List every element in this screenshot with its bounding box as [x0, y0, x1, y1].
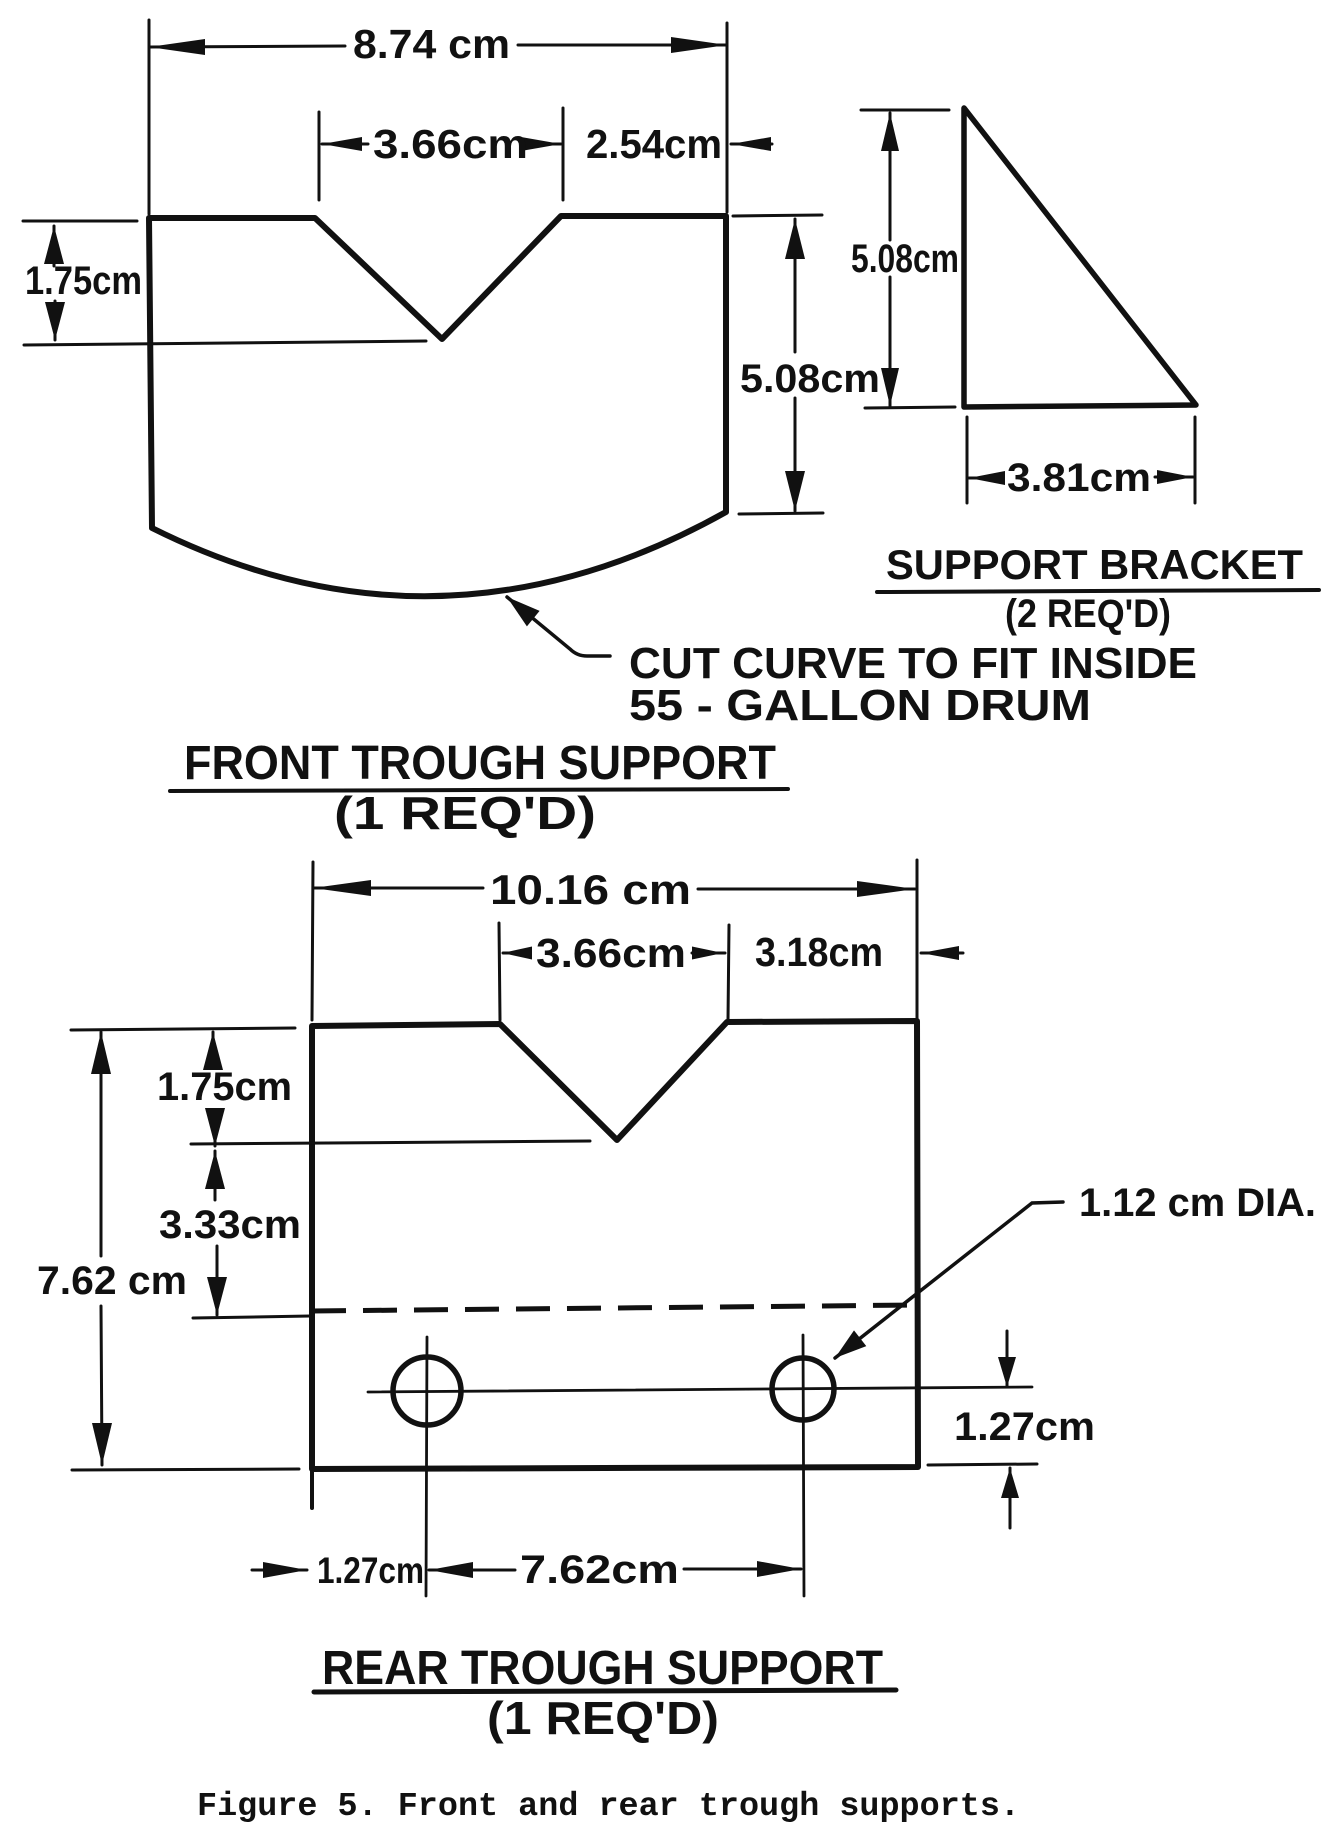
svg-text:5.08cm: 5.08cm [851, 237, 959, 281]
hole left [393, 1357, 461, 1425]
dimension 1.75cm arrows (rear) [212, 1032, 215, 1066]
dimension 10.16cm line [313, 887, 483, 890]
rear vertex reference line [191, 1141, 590, 1144]
rear top reference tick [71, 1028, 295, 1030]
dimension 1.75cm reference line top (front) [23, 220, 137, 223]
svg-text:5.08cm: 5.08cm [740, 357, 880, 401]
dimension 10.16cm extension left [312, 862, 313, 1020]
svg-text:2.54cm: 2.54cm [586, 121, 722, 167]
dimension 10.16cm extension right [916, 860, 919, 1018]
support bracket outline (triangle) [964, 108, 1196, 407]
dimension 1.75cm reference line bottom (front) [24, 341, 426, 345]
dimension 7.62cm bottom line [429, 1569, 515, 1572]
svg-text:SUPPORT BRACKET: SUPPORT BRACKET [886, 541, 1303, 588]
dimension 5.08cm line (front) [794, 219, 797, 352]
svg-text:3.81cm: 3.81cm [1007, 456, 1151, 500]
dimension 8.74cm extension line left [148, 20, 151, 214]
dimension 3.66cm line (front) [322, 143, 368, 146]
dimension 1.27cm right bottom tick [928, 1464, 1037, 1465]
rear bend dashed line [312, 1305, 917, 1311]
svg-text:1.27cm: 1.27cm [317, 1550, 424, 1591]
dimension 1.27cm right arrows [1006, 1331, 1009, 1387]
dimension 5.08cm tick top (front) [733, 215, 822, 216]
title underline front [170, 789, 788, 791]
svg-text:3.33cm: 3.33cm [159, 1203, 301, 1247]
svg-text:7.62cm: 7.62cm [520, 1548, 679, 1592]
bracket 3.81cm extension left [966, 417, 969, 503]
dimension 2.54cm arrow [731, 143, 772, 146]
svg-text:(1 REQ'D): (1 REQ'D) [487, 1692, 719, 1744]
bracket 3.81cm extension right [1194, 417, 1197, 503]
svg-text:3.66cm: 3.66cm [536, 930, 686, 976]
svg-text:3.66cm: 3.66cm [373, 121, 528, 167]
hole right vertical centerline [803, 1335, 804, 1596]
holes horizontal centerline [368, 1387, 1032, 1392]
svg-text:(1 REQ'D): (1 REQ'D) [334, 787, 596, 839]
dimension 3.66cm tick left (front) [318, 112, 321, 200]
dimension 8.74cm extension line right [726, 23, 729, 212]
bracket 5.08cm tick bottom [865, 407, 955, 408]
dimension 8.74cm line [149, 46, 345, 47]
dimension 3.33cm arrows [214, 1151, 217, 1200]
bracket 5.08cm tick top [861, 109, 949, 112]
dimension 3.33cm bottom tick [193, 1316, 310, 1318]
dimension 3.66cm tick right (rear) [728, 925, 729, 1020]
bracket 3.81cm line [969, 477, 1003, 480]
svg-text:8.74 cm: 8.74 cm [353, 21, 510, 67]
bottom dimension outside arrow [252, 1569, 307, 1572]
svg-text:10.16 cm: 10.16 cm [490, 866, 691, 913]
title underline bracket [877, 590, 1319, 592]
leader to cut curve [507, 597, 610, 656]
svg-text:3.18cm: 3.18cm [755, 929, 883, 975]
rear left edge extension below [310, 1469, 314, 1508]
svg-text:Figure 5. Front and rear troug: Figure 5. Front and rear trough supports… [197, 1788, 1020, 1825]
bracket 5.08cm line [889, 113, 892, 240]
leader 1.12cm DIA [835, 1202, 1063, 1358]
svg-text:7.62 cm: 7.62 cm [37, 1259, 187, 1303]
dimension 3.18cm arrow [921, 952, 963, 955]
title underline rear [314, 1690, 896, 1692]
hole left vertical centerline [426, 1337, 427, 1596]
hole right [772, 1358, 834, 1420]
front trough support outline [149, 216, 726, 596]
svg-text:1.75cm: 1.75cm [25, 259, 142, 303]
svg-text:(2 REQ'D): (2 REQ'D) [1005, 592, 1171, 636]
svg-text:1.75cm: 1.75cm [157, 1065, 292, 1109]
svg-text:REAR TROUGH SUPPORT: REAR TROUGH SUPPORT [322, 1642, 883, 1695]
dimension 7.62cm bottom tick [72, 1469, 299, 1470]
dimension 1.75cm arrows (front) [53, 226, 56, 266]
dimension 3.66cm tick left (rear) [499, 923, 500, 1020]
svg-text:1.27cm: 1.27cm [954, 1405, 1095, 1449]
svg-text:55 - GALLON DRUM: 55 - GALLON DRUM [629, 681, 1091, 730]
svg-text:FRONT TROUGH SUPPORT: FRONT TROUGH SUPPORT [184, 737, 776, 790]
svg-text:1.12 cm DIA.: 1.12 cm DIA. [1079, 1181, 1316, 1225]
rear trough support outline [312, 1021, 918, 1469]
dimension 7.62cm line [100, 1032, 103, 1256]
dimension 3.66cm tick right (front) [562, 108, 565, 200]
dimension 3.66cm line (rear) [503, 952, 530, 955]
dimension 5.08cm tick bottom (front) [739, 513, 823, 514]
